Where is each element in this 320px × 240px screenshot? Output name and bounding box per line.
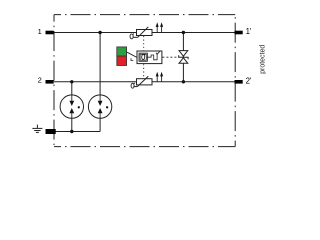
svg-text:2': 2' xyxy=(246,76,252,85)
mechanical link indicator to U1 (diagonal) xyxy=(127,52,137,57)
varistor RV2 diagonal stroke xyxy=(137,76,148,86)
wire GDT F2 bottom (GDT to earth bus) xyxy=(99,118,101,131)
wire GDT F2 top (line 1 down to GDT, crossing line 2) xyxy=(99,33,101,95)
dashed link U1 to varistor RV2 xyxy=(143,64,145,78)
terminal 2 (unprotected input, black block) xyxy=(46,80,54,84)
varistor RV1 thermal disconnect tail xyxy=(133,36,137,38)
terminal 2' (protected output, black block) xyxy=(235,80,243,84)
wire line 1 left segment (terminal 1 to varistor R1) xyxy=(54,32,137,34)
wire line 1 right segment (varistor R1 to terminal 1') xyxy=(152,32,235,34)
terminal 1' (protected output, black block) xyxy=(235,31,243,35)
label terminal 2 xyxy=(38,76,42,85)
varistor RV2 thermal disconnect tail xyxy=(133,86,137,88)
svg-text:1: 1 xyxy=(38,27,42,36)
wire GDT F1 bottom (GDT to earth bus) xyxy=(71,118,73,131)
gas discharge tube F1 (circle) xyxy=(60,95,83,118)
label theta U1 xyxy=(142,54,146,59)
label terminal 1 xyxy=(38,27,42,36)
node junction line 2 / GDT F1 xyxy=(70,80,73,83)
label theta RV1 (thermal) xyxy=(130,34,134,39)
terminal earth (black block) xyxy=(46,129,56,134)
label terminal 1' xyxy=(246,27,252,36)
monitoring box U1 (thermal disconnect mechanism) xyxy=(137,51,162,64)
node junction earth bus / GDT F1 xyxy=(70,130,73,133)
wire earth bus xyxy=(55,131,100,133)
svg-text:1': 1' xyxy=(246,27,252,36)
terminal 1 (unprotected input, black block) xyxy=(46,31,54,35)
gas discharge tube F2 (circle) xyxy=(88,95,111,118)
wire TVS diode vertical (line 1 to line 2) xyxy=(182,33,184,82)
status indicator (green/red flag) xyxy=(117,47,127,66)
TVS suppressor diode D1 (bidirectional) xyxy=(179,51,188,64)
wire GDT F1 top (line 2 down to GDT) xyxy=(71,82,73,95)
small hook below link xyxy=(131,58,133,60)
wire line 2 right segment (varistor R2 to terminal 2') xyxy=(152,81,235,83)
label protected (rotated, right side) xyxy=(260,45,267,74)
ground symbol xyxy=(32,125,42,133)
node junction line 1 / TVS xyxy=(182,31,185,34)
wire line 2 left segment (terminal 2 to varistor R2) xyxy=(54,81,137,83)
label terminal 2' xyxy=(246,76,252,85)
label theta RV2 (thermal) xyxy=(131,83,135,88)
varistor RV1 in line 1 (rectangle body) xyxy=(137,30,153,36)
varistor RV2 in line 2 (rectangle body) xyxy=(137,79,153,85)
node junction line 1 / GDT F2 xyxy=(98,31,101,34)
inner thermal element box (double border with theta) xyxy=(139,53,147,61)
varistor RV1 diagonal stroke xyxy=(138,27,149,38)
dashed link varistor RV1 to U1 xyxy=(143,36,145,51)
disconnect arrows A2 on line 2 (double up arrows) xyxy=(156,72,163,82)
enclosure border (dash-dot outline of SPD module) xyxy=(54,15,235,147)
dashed link U1 to TVS D1 xyxy=(162,56,178,58)
disconnect arrows A1 on line 1 (double up arrows) xyxy=(156,22,163,32)
node junction line 2 / TVS xyxy=(182,80,185,83)
svg-text:2: 2 xyxy=(38,76,42,85)
svg-text:protected: protected xyxy=(260,45,267,74)
disconnector contact glyph inside U1 xyxy=(147,51,159,59)
